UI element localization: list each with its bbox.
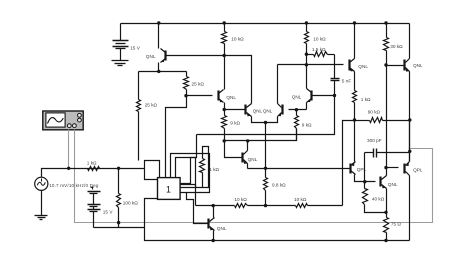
node dot R18 bottom bbox=[384, 239, 387, 242]
svg-text:1 kΩ: 1 kΩ bbox=[361, 97, 371, 102]
wire diff pair emitter bus bbox=[252, 117, 278, 123]
wire block left pin 2 to negative rail bbox=[145, 199, 214, 241]
subcircuit block 1 bbox=[158, 178, 181, 200]
svg-text:9.8 kΩ: 9.8 kΩ bbox=[272, 183, 286, 188]
node dot C2/R17 tap bbox=[363, 180, 366, 183]
transistor Q3 (QNL) bbox=[219, 90, 224, 103]
capacitor C2 300 pF bbox=[365, 149, 410, 158]
svg-text:QNL: QNL bbox=[388, 182, 398, 187]
node dot rail / R1 top bbox=[223, 21, 226, 24]
wire C1 bottom to mirror rail bbox=[197, 96, 335, 135]
node dot Q6 base node bbox=[384, 63, 387, 66]
wire y205 right end up to 90k node bbox=[343, 121, 355, 206]
label QNL (Q10) bbox=[388, 182, 398, 187]
label QNL (Q8) bbox=[217, 226, 227, 231]
wire Q8 emitter down bbox=[213, 231, 215, 241]
node dot Q1 emitter node bbox=[157, 70, 160, 73]
wire Q11 top lead bbox=[409, 121, 411, 162]
node dot rail / R2 top bbox=[305, 21, 308, 24]
resistor R6 25 kOhm bbox=[184, 72, 189, 96]
svg-text:QNL: QNL bbox=[413, 63, 423, 68]
wire Q2 emitter down bbox=[306, 103, 308, 110]
node dot A (R1 bottom / Q1 base / Q3 collector) bbox=[223, 54, 226, 57]
wire y205 node bbox=[196, 205, 214, 207]
wire negative rail bottom bbox=[214, 240, 386, 242]
wire Q3 emitter down bbox=[224, 103, 226, 110]
node dot input / R12 top bbox=[117, 167, 120, 170]
resistor R10 9.8 kOhm bbox=[264, 169, 268, 206]
node dot node C bbox=[264, 167, 267, 170]
node dot 90k right on Q6 emitter line bbox=[408, 118, 411, 121]
wire C2 left lead down bbox=[364, 153, 366, 182]
node dot R7 bottom / 90k left bbox=[353, 118, 356, 121]
svg-text:25 kΩ: 25 kΩ bbox=[145, 103, 158, 108]
wire Q6 base chain down bbox=[386, 66, 388, 168]
svg-text:QNL: QNL bbox=[226, 95, 236, 100]
node dot Q10 collector node bbox=[384, 166, 387, 169]
node dot rail / Q1 collector bbox=[157, 21, 160, 24]
label 10 kOhm (R14) bbox=[234, 197, 247, 202]
node dot Q8 emitter on negative rail bbox=[212, 239, 215, 242]
label QNL (Q7) bbox=[248, 157, 258, 162]
svg-text:9 kΩ: 9 kΩ bbox=[302, 122, 312, 127]
wire Q5 emitter to R7 top bbox=[354, 72, 356, 91]
svg-text:15 V: 15 V bbox=[103, 209, 114, 214]
label QNL QNL (diff pair) bbox=[253, 109, 273, 114]
ground below battery V1 bbox=[112, 61, 129, 66]
resistor R15 10 kOhm bbox=[296, 204, 308, 208]
wire node A to corner bbox=[225, 56, 252, 104]
resistor R17 40 kOhm bbox=[363, 182, 387, 213]
wire Q1 collector to rail bbox=[158, 24, 160, 49]
resistor R16 90 kOhm bbox=[355, 118, 410, 123]
wire block left pin 1 bbox=[145, 169, 158, 180]
wire Q7 base path bbox=[225, 141, 243, 158]
wire R3 right end down to node B bbox=[334, 55, 336, 65]
label 9.8 kOhm (R10) bbox=[272, 183, 286, 188]
transistor Q10 (QNL output) bbox=[381, 176, 387, 189]
resistor R11 1 kOhm input bbox=[88, 167, 100, 171]
svg-text:QNL: QNL bbox=[146, 54, 156, 59]
svg-text:10 kΩ: 10 kΩ bbox=[313, 37, 326, 42]
wire mirror rail 2 bbox=[225, 129, 297, 141]
wire Q10 collector node to Q11 base bbox=[387, 167, 399, 169]
node dot rail2 left bbox=[223, 139, 226, 142]
node dot R6 bottom bbox=[184, 94, 187, 97]
svg-text:QNL: QNL bbox=[217, 226, 227, 231]
label 10 kOhm (R15) bbox=[294, 197, 307, 202]
resistor R18 75 Ohm bbox=[384, 213, 389, 241]
node dot rail / R4 top bbox=[353, 21, 356, 24]
wire positive supply rail bbox=[121, 23, 410, 25]
label 9 kOhm (R9) bbox=[302, 122, 312, 127]
node dot rail / R4b top bbox=[384, 21, 387, 24]
label QNL (Q5) bbox=[358, 64, 368, 69]
resistor R4 30 kOhm at x386 bbox=[384, 24, 389, 66]
svg-text:QPL: QPL bbox=[413, 167, 423, 172]
wire Q7 collector up bbox=[247, 142, 249, 151]
transistor Q8 (QNL) bbox=[209, 218, 215, 231]
wire rail1 to block right pin 1 bbox=[181, 135, 197, 184]
wire Q3 collector up to node A bbox=[224, 56, 226, 90]
node dot C1 / Q2 base bbox=[333, 94, 336, 97]
oscilloscope XSC1 icon bbox=[43, 111, 83, 130]
label QPL (Q11) bbox=[413, 167, 423, 172]
label 25 kOhm (R6) bbox=[192, 82, 205, 87]
svg-text:QNL QNL: QNL QNL bbox=[253, 109, 273, 114]
label 15 V (V1) bbox=[130, 45, 141, 50]
wire R6 bottom to Q3 base bbox=[187, 95, 213, 97]
wire Q5 collector to rail bbox=[354, 24, 356, 59]
wire source to ground bbox=[41, 191, 43, 216]
transistor Q4L diff pair left (QNL) bbox=[246, 104, 252, 117]
wire negative rail right corner bbox=[387, 240, 410, 242]
label source value bbox=[49, 183, 99, 188]
wire Q6 emitter down bbox=[409, 72, 411, 162]
node dot Q10 emitter / R17 bottom bbox=[384, 211, 387, 214]
label 75 Ohm (R18) bbox=[391, 221, 402, 226]
resistor R3 1.5 kOhm bbox=[307, 52, 335, 57]
svg-text:QNL: QNL bbox=[292, 95, 302, 100]
wire Q10 emitter down bbox=[386, 189, 388, 213]
svg-text:5 nF: 5 nF bbox=[342, 79, 352, 84]
resistor R5 25 kOhm bbox=[137, 72, 141, 161]
node dot R9 top bbox=[295, 108, 298, 111]
wire Q1 emitter node horizontal bbox=[139, 71, 187, 73]
resistor R12 100 kOhm bbox=[117, 169, 121, 228]
wire Q8 collector up bbox=[213, 206, 215, 218]
capacitor C1 5 nF bbox=[331, 65, 340, 96]
resistor R1 10 kOhm bbox=[222, 24, 227, 56]
wire block pin path to y205 bbox=[181, 185, 196, 206]
wire R6 node to block pin path bbox=[166, 96, 187, 178]
svg-text:1 kΩ: 1 kΩ bbox=[87, 160, 97, 165]
label QNL (Q2) bbox=[292, 95, 302, 100]
svg-text:QNL: QNL bbox=[248, 157, 258, 162]
ac source V3 10.7mV/10kHz bbox=[35, 177, 48, 190]
wire Q1 base to node A bbox=[167, 55, 225, 57]
node dot C2 right on output line bbox=[408, 150, 411, 153]
resistor R8 9 kOhm bbox=[222, 110, 227, 141]
wire Q11 bottom lead down bbox=[409, 176, 411, 241]
resistor R9 9 kOhm bbox=[295, 110, 299, 141]
wire Q10 collector up bbox=[386, 168, 388, 176]
transistor Q2 (QNL pnp) bbox=[307, 89, 312, 103]
resistor R13 1 kOhm with loop bbox=[181, 147, 209, 188]
label 100 kOhm (R12) bbox=[123, 200, 138, 205]
wire Q1 emitter down bbox=[158, 63, 160, 72]
svg-text:30 kΩ: 30 kΩ bbox=[390, 44, 403, 49]
svg-text:1 kΩ: 1 kΩ bbox=[209, 167, 219, 172]
label QNL (Q3) bbox=[226, 95, 236, 100]
wire node B to Q4 collector bbox=[277, 65, 279, 104]
wire battery V2 minus rail bbox=[94, 227, 145, 229]
wire source to input node bbox=[42, 169, 145, 178]
wire Q9 collector down to base wire bbox=[355, 175, 376, 182]
label QPL (Q9) bbox=[357, 167, 367, 172]
svg-text:90 kΩ: 90 kΩ bbox=[368, 110, 381, 115]
svg-text:1.5 kΩ: 1.5 kΩ bbox=[312, 47, 326, 52]
svg-text:1: 1 bbox=[166, 184, 171, 194]
node dot rail2 / Q7 collector bbox=[246, 139, 249, 142]
wire input jog to block top pin 1 bbox=[145, 161, 160, 178]
svg-text:75 Ω: 75 Ω bbox=[391, 221, 402, 226]
wire node C horizontal bbox=[248, 168, 350, 170]
svg-text:10 kΩ: 10 kΩ bbox=[234, 197, 247, 202]
node dot Q3 emitter / R8 / Q4L base bbox=[223, 108, 226, 111]
label 1 kOhm (R7) bbox=[361, 97, 371, 102]
node dot diff emitter bus bbox=[264, 121, 267, 124]
label 1.5 kOhm (R3) bbox=[312, 47, 326, 52]
wire Q4R base lead bbox=[289, 109, 307, 111]
ground below source bbox=[35, 216, 48, 220]
wire R14 leads bbox=[214, 205, 266, 207]
node dot R10 bottom bbox=[264, 204, 267, 207]
wire Q7 emitter down bbox=[247, 164, 249, 169]
label 5 nF (C1) bbox=[342, 79, 352, 84]
wire scope channel A probe (grey) bbox=[68, 130, 70, 169]
wire Q9 emitter up bbox=[354, 121, 356, 162]
label QNL (Q6) bbox=[413, 63, 423, 68]
transistor Q7 (QNL) bbox=[243, 151, 248, 164]
label 90 kOhm (R16) bbox=[368, 110, 381, 115]
node dot R2 bottom / R3 left bbox=[305, 53, 308, 56]
label 300 pF (C2) bbox=[367, 138, 382, 143]
svg-text:9 kΩ: 9 kΩ bbox=[230, 121, 240, 126]
svg-text:15 V: 15 V bbox=[130, 45, 141, 50]
svg-text:10 kΩ: 10 kΩ bbox=[294, 197, 307, 202]
wire node B horizontal bbox=[278, 64, 344, 66]
label 1 kOhm (R13) bbox=[209, 167, 219, 172]
wire Q8 base path bbox=[187, 193, 209, 224]
resistor R14 10 kOhm bbox=[235, 204, 248, 208]
svg-text:QNL: QNL bbox=[358, 64, 368, 69]
transistor Q6 (QNL) bbox=[405, 59, 410, 72]
label 10 kOhm (R2) bbox=[313, 37, 326, 42]
transistor Q11 (QPL pnp output) bbox=[405, 162, 410, 176]
battery V1 15 V bbox=[113, 24, 129, 61]
transistor Q1 (QNL pnp mirror) bbox=[161, 49, 166, 63]
wire diff bus down to node C bbox=[265, 123, 267, 169]
wire Q6 base lead bbox=[387, 65, 405, 67]
svg-text:10 kΩ: 10 kΩ bbox=[231, 37, 244, 42]
wire Q4L base lead bbox=[225, 109, 246, 111]
label 9 kOhm (R8) bbox=[230, 121, 240, 126]
node dot Q8 collector node bbox=[212, 204, 215, 207]
svg-text:300 pF: 300 pF bbox=[367, 138, 382, 143]
wire block top pin 4 loop bbox=[176, 158, 196, 188]
wire R2 bottom down to node B bbox=[306, 55, 308, 65]
label 1 kOhm (R11) bbox=[87, 160, 97, 165]
transistor Q9 (QPL pnp) bbox=[351, 162, 356, 175]
wire rail corner to Q6 collector bbox=[409, 24, 411, 59]
wire scope channel B probe (grey) bbox=[75, 130, 433, 223]
battery V2 15 V bbox=[88, 187, 101, 228]
resistor R7 1 kOhm bbox=[353, 91, 357, 121]
wire block top pin 3 loop bbox=[171, 154, 210, 193]
label 25 kOhm (R5) bbox=[145, 103, 158, 108]
label 10 kOhm (R1) bbox=[231, 37, 244, 42]
label QNL (Q1) bbox=[146, 54, 156, 59]
node dot scope tap input bbox=[67, 167, 70, 170]
svg-text:100 kΩ: 100 kΩ bbox=[123, 200, 138, 205]
svg-text:25 kΩ: 25 kΩ bbox=[192, 82, 205, 87]
label 15 V (V2) bbox=[103, 209, 114, 214]
transistor Q5 (QNL) bbox=[350, 59, 355, 72]
label 30 kOhm (R4) bbox=[390, 44, 403, 49]
label 40 kOhm (R17) bbox=[372, 197, 385, 202]
wire Q2 collector up to node B bbox=[306, 65, 308, 89]
node dot on node B line bbox=[305, 63, 308, 66]
wire Q2 base lead bbox=[313, 95, 335, 97]
svg-text:40 kΩ: 40 kΩ bbox=[372, 197, 385, 202]
transistor Q4R diff pair right (QNL) bbox=[278, 104, 283, 117]
resistor R2 10 kOhm bbox=[305, 24, 309, 55]
wire R15 leads bbox=[266, 205, 343, 207]
node dot R12 / scope grey crossing bbox=[117, 221, 120, 224]
